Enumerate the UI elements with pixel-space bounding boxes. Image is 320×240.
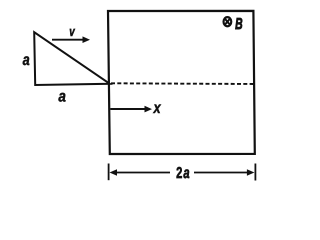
dimension right tick	[254, 164, 256, 181]
triangle conductor	[34, 32, 110, 85]
x axis arrow	[110, 106, 152, 113]
velocity arrow v	[52, 36, 90, 43]
dashed center line	[111, 82, 254, 85]
svg-text:v: v	[69, 24, 75, 39]
svg-text:B: B	[235, 16, 243, 33]
svg-text:a: a	[23, 52, 30, 69]
dimension line right segment with right arrowhead	[194, 169, 254, 176]
svg-text:2a: 2a	[176, 165, 190, 182]
field region rectangle	[108, 11, 255, 154]
dimension left tick	[108, 164, 110, 181]
B field symbol circle-cross	[224, 17, 232, 26]
dimension line left segment with left arrowhead	[110, 169, 171, 176]
svg-text:x: x	[153, 100, 162, 117]
svg-text:a: a	[58, 89, 66, 106]
